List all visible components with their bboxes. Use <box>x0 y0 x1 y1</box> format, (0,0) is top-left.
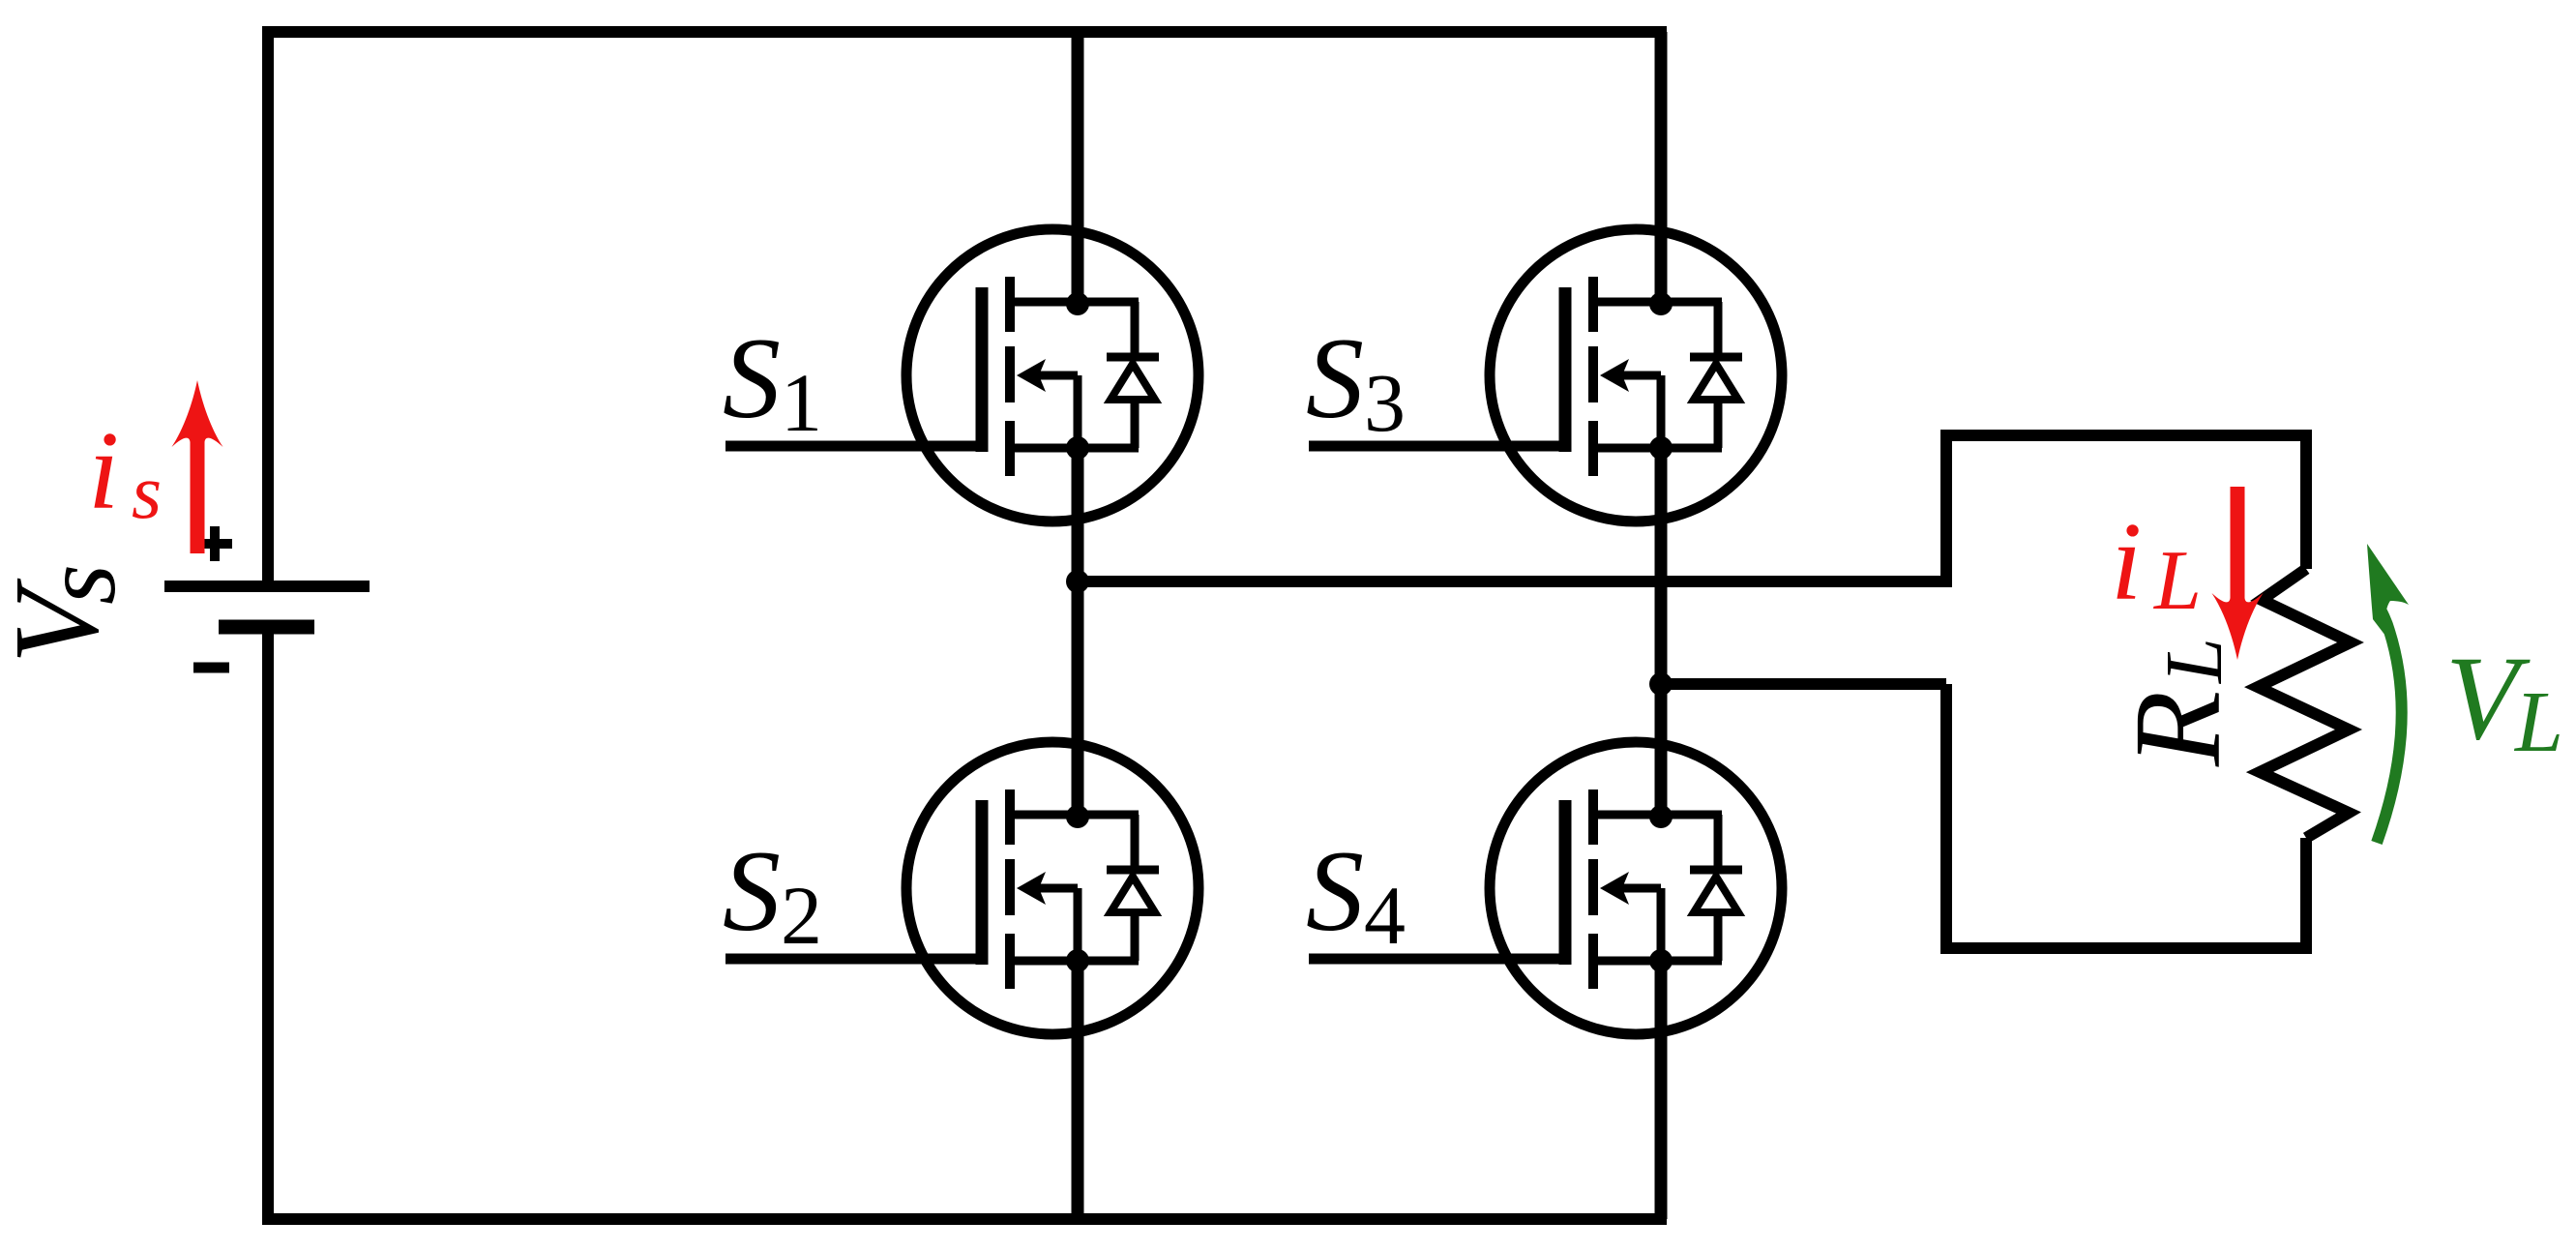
wire left rail lower <box>262 627 274 1225</box>
transistor S3 <box>1309 229 1782 521</box>
svg-text:R: R <box>2109 691 2246 767</box>
svg-text:i: i <box>2111 500 2142 624</box>
wire leg2 middle (S3 source to S4 drain) <box>1655 448 1668 816</box>
wire leg2 lower (S4 source to bottom rail) <box>1655 962 1668 1219</box>
label iL <box>2111 500 2202 628</box>
current arrow is <box>172 380 223 553</box>
wire leg1 middle (S1 source to S2 drain) <box>1072 448 1084 816</box>
wire bottom rail <box>265 1213 1667 1225</box>
label is <box>88 409 162 535</box>
node A junction dot <box>1066 570 1089 593</box>
svg-text:s: s <box>132 450 162 535</box>
wire leg2 upper (top rail to S3 drain) <box>1655 32 1668 308</box>
label RL <box>2109 638 2246 767</box>
battery Vs long plate <box>164 581 370 592</box>
wire load left upper stub <box>1940 435 1952 587</box>
wire top rail <box>265 26 1667 38</box>
battery plus sign <box>197 526 232 561</box>
wire leg1 lower (S2 source to bottom rail) <box>1072 962 1084 1219</box>
svg-text:L: L <box>2149 638 2239 684</box>
svg-text:i: i <box>88 409 119 533</box>
wire left rail upper <box>262 26 274 586</box>
wire leg1 upper (top rail to S1 drain) <box>1072 32 1084 308</box>
label Vs <box>0 564 137 664</box>
wire node B to load (lower output) <box>1661 678 1946 690</box>
wire load bottom <box>1940 942 2312 954</box>
wire load right lower <box>2300 838 2312 954</box>
label VL <box>2445 632 2563 770</box>
current arrow iL <box>2212 487 2264 660</box>
wire load top <box>1940 430 2306 441</box>
svg-text:s: s <box>22 564 137 605</box>
node B junction dot <box>1649 672 1673 696</box>
battery Vs short plate <box>219 620 314 635</box>
wire node A to load (upper output) <box>1078 576 1946 587</box>
resistor RL zigzag <box>2258 569 2351 838</box>
battery minus sign <box>193 663 229 673</box>
voltage arc VL <box>2367 544 2409 843</box>
wire load right upper <box>2300 430 2312 569</box>
wire load left lower stub <box>1940 684 1952 954</box>
svg-text:L: L <box>2513 674 2563 770</box>
svg-text:L: L <box>2152 534 2202 628</box>
transistor S2 <box>725 742 1199 1034</box>
transistor S1 <box>725 229 1199 521</box>
transistor S4 <box>1309 742 1782 1034</box>
